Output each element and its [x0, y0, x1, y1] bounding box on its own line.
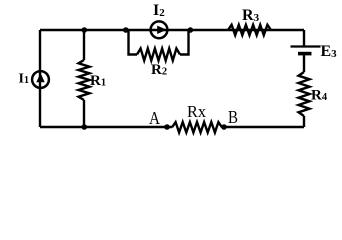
node dot R1 top	[82, 27, 88, 33]
wire top	[40, 29, 304, 31]
svg-text:Rx: Rx	[187, 102, 206, 121]
node dot loop left	[123, 27, 129, 33]
battery E3 short plate	[298, 52, 312, 56]
I2 arrow head	[157, 26, 167, 34]
resistor R4	[299, 72, 310, 116]
node B dot	[221, 124, 227, 130]
wire bottom right	[222, 126, 304, 128]
wire R2 loop	[129, 30, 189, 55]
wire bottom left	[40, 126, 172, 128]
wire right mid	[303, 55, 305, 72]
current source I1 circle	[32, 71, 49, 88]
current source I2 circle	[151, 21, 168, 38]
node dot R1 bottom	[82, 124, 88, 130]
resistor R1	[79, 60, 90, 100]
wire left	[39, 30, 41, 127]
svg-text:A: A	[149, 108, 160, 128]
wire right lower	[303, 116, 305, 127]
battery E3 long plate	[291, 45, 321, 47]
resistor R2	[137, 49, 180, 61]
wire right upper	[303, 30, 305, 45]
resistor R3	[228, 25, 271, 35]
resistor Rx	[172, 122, 222, 132]
node A dot	[164, 124, 170, 130]
I1 arrow head	[36, 73, 44, 83]
node dot loop right	[188, 27, 194, 33]
svg-text:B: B	[228, 107, 238, 127]
wire R1 branch	[83, 30, 85, 127]
